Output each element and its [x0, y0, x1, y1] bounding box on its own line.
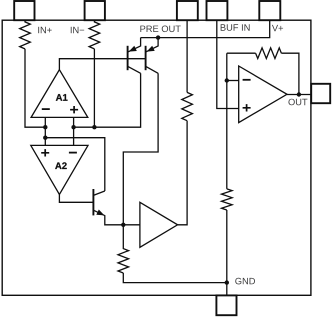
pin V+ (top)	[259, 1, 280, 20]
wire buffer - input	[227, 80, 239, 82]
wire R2 down to node C	[93, 49, 95, 127]
pin GND (bottom)	[216, 295, 236, 315]
A2 minus sign	[69, 152, 77, 154]
output buffer op-amp (points right)	[239, 66, 287, 123]
Q3 emitter arrowhead	[96, 210, 104, 216]
junction dot Q2 emitter / V+ rail	[156, 35, 160, 39]
wire node E to driver input	[123, 224, 140, 226]
label GND	[235, 278, 255, 285]
wire node row1 to Q1 collector	[74, 73, 141, 127]
buffer inverting node dot	[225, 78, 229, 82]
Q2 emitter wire	[146, 38, 158, 52]
Q2 collector wire	[146, 66, 159, 73]
IC boundary box	[2, 20, 311, 295]
label OUT	[288, 99, 307, 106]
wire buffer output to OUT pin	[287, 94, 311, 96]
wire PRE OUT pin down	[186, 20, 188, 92]
Q2 emitter arrowhead	[147, 46, 155, 52]
label PRE OUT	[140, 26, 180, 33]
op-amp A1 (points up)	[31, 70, 88, 118]
wire R5 down to GND rail	[226, 210, 228, 283]
wire feedback top left	[227, 52, 256, 54]
Q1 collector wire	[128, 66, 141, 73]
wire A2 output to Q3 base	[59, 195, 93, 203]
node E dot	[121, 223, 125, 227]
driver amp (points right)	[140, 202, 178, 247]
A1 plus sign	[70, 106, 78, 113]
output node dot	[297, 92, 301, 96]
resistor R2 (IN- input)	[89, 20, 100, 49]
node C dot	[92, 125, 96, 129]
transistor Q2 base bar	[145, 46, 147, 70]
resistor R4 (node E to GND)	[118, 225, 129, 273]
Q1 emitter arrowhead	[129, 46, 137, 52]
transistor Q3 base bar	[92, 189, 94, 215]
pin BUF IN (top)	[207, 1, 228, 20]
node A dot	[43, 125, 47, 129]
resistor R1 (IN+ input)	[20, 20, 31, 49]
wire GND rail to GND pin	[226, 283, 228, 296]
A2 plus sign	[41, 149, 49, 156]
A1 minus sign	[42, 108, 50, 110]
resistor R6 (buffer feedback)	[256, 48, 282, 59]
GND junction dot	[225, 280, 229, 284]
label BUF IN	[221, 24, 250, 30]
Q1 emitter wire	[128, 38, 140, 52]
label V+	[272, 25, 283, 31]
buffer plus sign	[243, 104, 251, 111]
wire R1 down to node A	[25, 49, 45, 127]
transistor Q1 base bar	[127, 46, 129, 70]
wire A1 output to Q1/Q2 bases	[59, 59, 145, 70]
label A1	[56, 94, 68, 101]
label IN-	[71, 27, 84, 33]
wire A1 noninverting to A2 inverting	[73, 117, 75, 145]
wire R4 to GND rail	[123, 273, 227, 283]
pin PRE OUT (top)	[177, 1, 198, 20]
pin IN- (top)	[85, 1, 105, 20]
node B dot	[71, 125, 75, 129]
wire R3 down to driver output	[178, 121, 188, 225]
label A2	[55, 162, 67, 169]
resistor R5 (feedback to GND)	[222, 189, 233, 210]
wire A1 inverting to A2 noninverting	[44, 117, 46, 145]
buffer minus sign	[243, 79, 251, 81]
pin IN+ (top)	[14, 1, 34, 20]
wire Q2 collector jog down to node E	[123, 73, 158, 225]
pin OUT (right side)	[311, 84, 330, 103]
Q3 emitter wire	[93, 210, 123, 225]
wire node row2 to Q3 collector	[45, 138, 105, 191]
wire feedback node vertical	[226, 53, 228, 189]
wire feedback top right to output	[281, 53, 299, 94]
Q3 collector wire	[93, 191, 104, 195]
node D dot	[43, 136, 47, 140]
label IN+	[38, 27, 51, 33]
wire V+ rail from emitters to V+ pin	[141, 20, 270, 37]
wire BUF IN pin to buffer + input	[217, 20, 239, 108]
resistor R3 (PRE OUT)	[182, 92, 193, 120]
op-amp A2 (points down)	[31, 145, 88, 194]
